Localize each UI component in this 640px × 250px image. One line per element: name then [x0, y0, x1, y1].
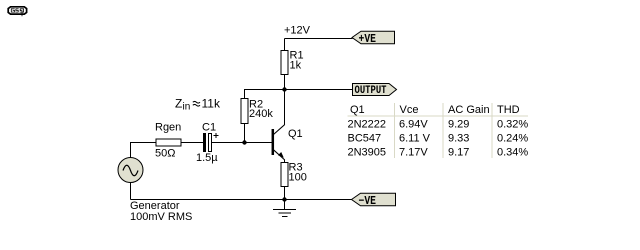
- svg-text:1k: 1k: [290, 60, 302, 72]
- svg-text:240k: 240k: [249, 108, 273, 120]
- svg-text:100: 100: [289, 172, 307, 184]
- junction ground node: [282, 197, 286, 201]
- wire: down to R2: [244, 90, 246, 100]
- wire: +12V rail to +VE flag: [285, 38, 353, 40]
- wire: node A left to R2 branch: [244, 89, 285, 91]
- wire: emitter down to R3: [284, 160, 286, 164]
- svg-text:0.24%: 0.24%: [497, 133, 528, 145]
- flag -VE: [352, 193, 396, 208]
- wire: generator top corner to Rgen: [131, 143, 157, 158]
- wire: R2 down to base wire: [244, 124, 246, 143]
- wire: bottom rail to -VE flag: [131, 199, 352, 201]
- generator source: [118, 158, 143, 183]
- svg-text:7.17V: 7.17V: [399, 147, 428, 159]
- svg-text:Vce: Vce: [400, 104, 419, 116]
- svg-text:Q1: Q1: [350, 104, 365, 116]
- wire: Rgen to C1: [181, 142, 203, 144]
- node A junction: [282, 87, 286, 91]
- svg-text:OUTPUT: OUTPUT: [355, 85, 387, 97]
- capacitor C1: [196, 122, 219, 165]
- svg-text:9.29: 9.29: [448, 119, 469, 131]
- label Zin: [175, 97, 221, 113]
- svg-text:1.5µ: 1.5µ: [196, 152, 218, 164]
- resistor R2: [241, 99, 273, 124]
- junction base node: [242, 140, 246, 144]
- svg-text:6.11 V: 6.11 V: [399, 133, 431, 145]
- ESP logo: [8, 7, 26, 16]
- table header underline: [348, 115, 529, 117]
- resistor Rgen: [155, 122, 181, 160]
- svg-text:0.32%: 0.32%: [497, 119, 528, 131]
- wire: node A to OUTPUT flag: [285, 89, 353, 91]
- svg-text:Z: Z: [175, 97, 182, 111]
- svg-text:11k: 11k: [202, 97, 221, 111]
- wire: C1 to base: [212, 142, 272, 144]
- svg-text:100mV RMS: 100mV RMS: [130, 211, 192, 223]
- svg-text:THD: THD: [497, 104, 520, 116]
- svg-text:Rgen: Rgen: [155, 122, 181, 134]
- resistor R1: [281, 50, 304, 75]
- transistor Q1: [273, 125, 303, 161]
- flag +VE: [352, 31, 395, 46]
- svg-text:BC547: BC547: [348, 133, 382, 145]
- wire: generator down to rail: [130, 183, 132, 200]
- table header: [350, 104, 520, 116]
- table column separators: [395, 103, 493, 158]
- svg-text:9.17: 9.17: [448, 147, 469, 159]
- svg-text:C1: C1: [202, 122, 216, 134]
- svg-text:Q1: Q1: [288, 128, 303, 140]
- wire: R1 to node A: [284, 75, 286, 91]
- svg-text:2N2222: 2N2222: [348, 119, 387, 131]
- svg-text:+12V: +12V: [284, 25, 311, 37]
- table row 3: [348, 147, 529, 159]
- wire: R3 down to ground rail: [284, 187, 286, 200]
- wire: collector up to node A: [284, 90, 286, 125]
- svg-text:+VE: +VE: [359, 33, 377, 46]
- table row 2: [348, 133, 529, 145]
- svg-text:0.34%: 0.34%: [497, 147, 528, 159]
- table row 1: [348, 119, 529, 131]
- svg-text:6.94V: 6.94V: [399, 119, 428, 131]
- flag OUTPUT: [353, 84, 397, 98]
- ground: [273, 200, 296, 217]
- svg-text:9.33: 9.33: [448, 133, 469, 145]
- svg-text:2N3905: 2N3905: [348, 147, 387, 159]
- wire: +12V down to R1: [284, 39, 286, 52]
- svg-text:−VE: −VE: [359, 195, 377, 208]
- svg-text:in: in: [183, 102, 191, 113]
- svg-text:AC Gain: AC Gain: [448, 104, 490, 116]
- svg-text:50Ω: 50Ω: [155, 148, 175, 160]
- label generator: [130, 200, 192, 223]
- resistor R3: [281, 162, 307, 187]
